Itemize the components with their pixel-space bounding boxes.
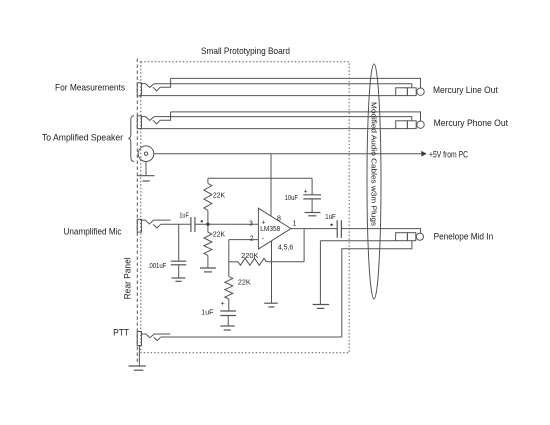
capacitor C4 1uF (gain) [220,311,236,326]
svg-text:3: 3 [249,221,253,228]
svg-text:1uF: 1uF [325,212,336,221]
wire: C1 to pin3 [195,223,259,225]
wire: connector ground drop [145,162,147,176]
wire: op-amp output [291,228,337,230]
arrowhead +5V [421,151,427,157]
resistor R1 22K (top) [204,178,212,224]
wire: PTT line [161,336,342,338]
svg-text:Rear Panel: Rear Panel [123,257,133,299]
plug P2 Mercury Phone Out [396,121,424,129]
ground G3 (.001uF) [172,278,186,281]
wire: J2 sleeve to P2 [139,128,396,130]
svg-text:+: + [221,301,225,308]
wire: tee to C2 [178,224,180,261]
svg-text:LM358: LM358 [260,226,280,233]
ground G8 (PTT) [129,366,146,370]
wire: J1 ring to P1 [154,84,412,88]
op-amp U1 LM358 [258,208,291,249]
svg-text:+: + [304,189,308,196]
wire: +5V from connector to arrow [154,153,422,155]
ground G1 (connector) [137,176,154,181]
svg-text:Mercury Line Out: Mercury Line Out [433,85,498,95]
resistor R2 22K (divider lower) [204,224,212,268]
wire: +5V rail top [208,177,312,179]
wire: pin8 supply [270,154,272,216]
svg-text:Penelope Mid In: Penelope Mid In [434,231,494,241]
svg-text:-: - [262,236,265,243]
resistor R4 22K (gain) [225,277,233,311]
resistor R3 220K (feedback) [229,258,304,265]
svg-text:1: 1 [293,220,297,227]
brace for To Amplified Speaker [128,116,134,162]
svg-text:22K: 22K [213,190,225,199]
capacitor C2 .001uF [171,261,187,278]
wire: J2 ring to P2 [154,117,412,121]
svg-text:2: 2 [250,235,254,242]
svg-text:+: + [262,220,266,227]
ground G4 (R2) [200,268,216,272]
svg-text:Unamplified Mic: Unamplified Mic [64,227,122,237]
svg-text:1uF: 1uF [179,210,189,219]
wire: P3 sleeve [320,240,395,242]
plug P3 Penelope Mid In [396,233,424,241]
cable bundle ellipse [367,64,381,299]
svg-text:PTT: PTT [113,328,129,338]
capacitor C5 1uF (output) [330,220,341,238]
plug P1 Mercury Line Out [396,88,424,96]
svg-text:Modified Audio Cables w3m Plug: Modified Audio Cables w3m Plugs [370,102,377,227]
svg-text:+5V from PC: +5V from PC [429,149,468,159]
jack J1 (For Measurements) [137,78,170,96]
wire: pin2 input [229,239,259,241]
wire: J1 tip to P1 [171,78,421,88]
ground G2 (10uF) [305,213,321,216]
wire: J1 sleeve to P1 [139,95,396,97]
wire: PTT sleeve to ground [138,346,140,366]
svg-text:To Amplified Speaker: To Amplified Speaker [42,132,123,142]
node junction dot [206,223,209,226]
wire: J2 tip to P2 [171,112,421,121]
svg-text:1uF: 1uF [201,307,214,316]
capacitor C1 1uF (input) [191,217,203,232]
wire: C5 to P3 tip [341,229,420,234]
svg-text:22K: 22K [238,277,251,286]
jack J2 (To Amplified Speaker) [137,112,170,129]
rear panel dashed line [136,59,138,363]
ground G6 (pins 4,5,6) [264,303,278,307]
connector J5 round (power) [138,146,154,162]
svg-text:.001uF: .001uF [148,261,167,270]
svg-text:220K: 220K [241,251,259,260]
wire: sleeve ground drop [319,241,321,305]
jack J3 (Unamplified Mic) [137,219,170,232]
capacitor C3 10uF [303,178,321,212]
svg-text:Mercury Phone Out: Mercury Phone Out [434,118,509,128]
svg-text:10uF: 10uF [285,193,299,202]
wire: pin2 branch vertical [228,240,230,277]
wire: pin 4,5,6 ground [271,241,273,303]
ground G7 (P3 sleeve) [313,305,330,309]
wire: mic signal [161,223,191,225]
svg-text:Small Prototyping Board: Small Prototyping Board [201,46,290,56]
svg-text:For Measurements: For Measurements [55,82,125,92]
ground G5 (C4) [220,326,234,330]
wire: P3 ring to PTT [342,241,412,337]
svg-text:22K: 22K [213,229,225,238]
wire: feedback to output node [303,229,305,262]
board outline: Small Prototyping Board dotted box [141,62,349,353]
jack J4 PTT [137,332,170,346]
svg-text:4,5,6: 4,5,6 [278,243,293,252]
svg-text:8: 8 [277,215,281,222]
